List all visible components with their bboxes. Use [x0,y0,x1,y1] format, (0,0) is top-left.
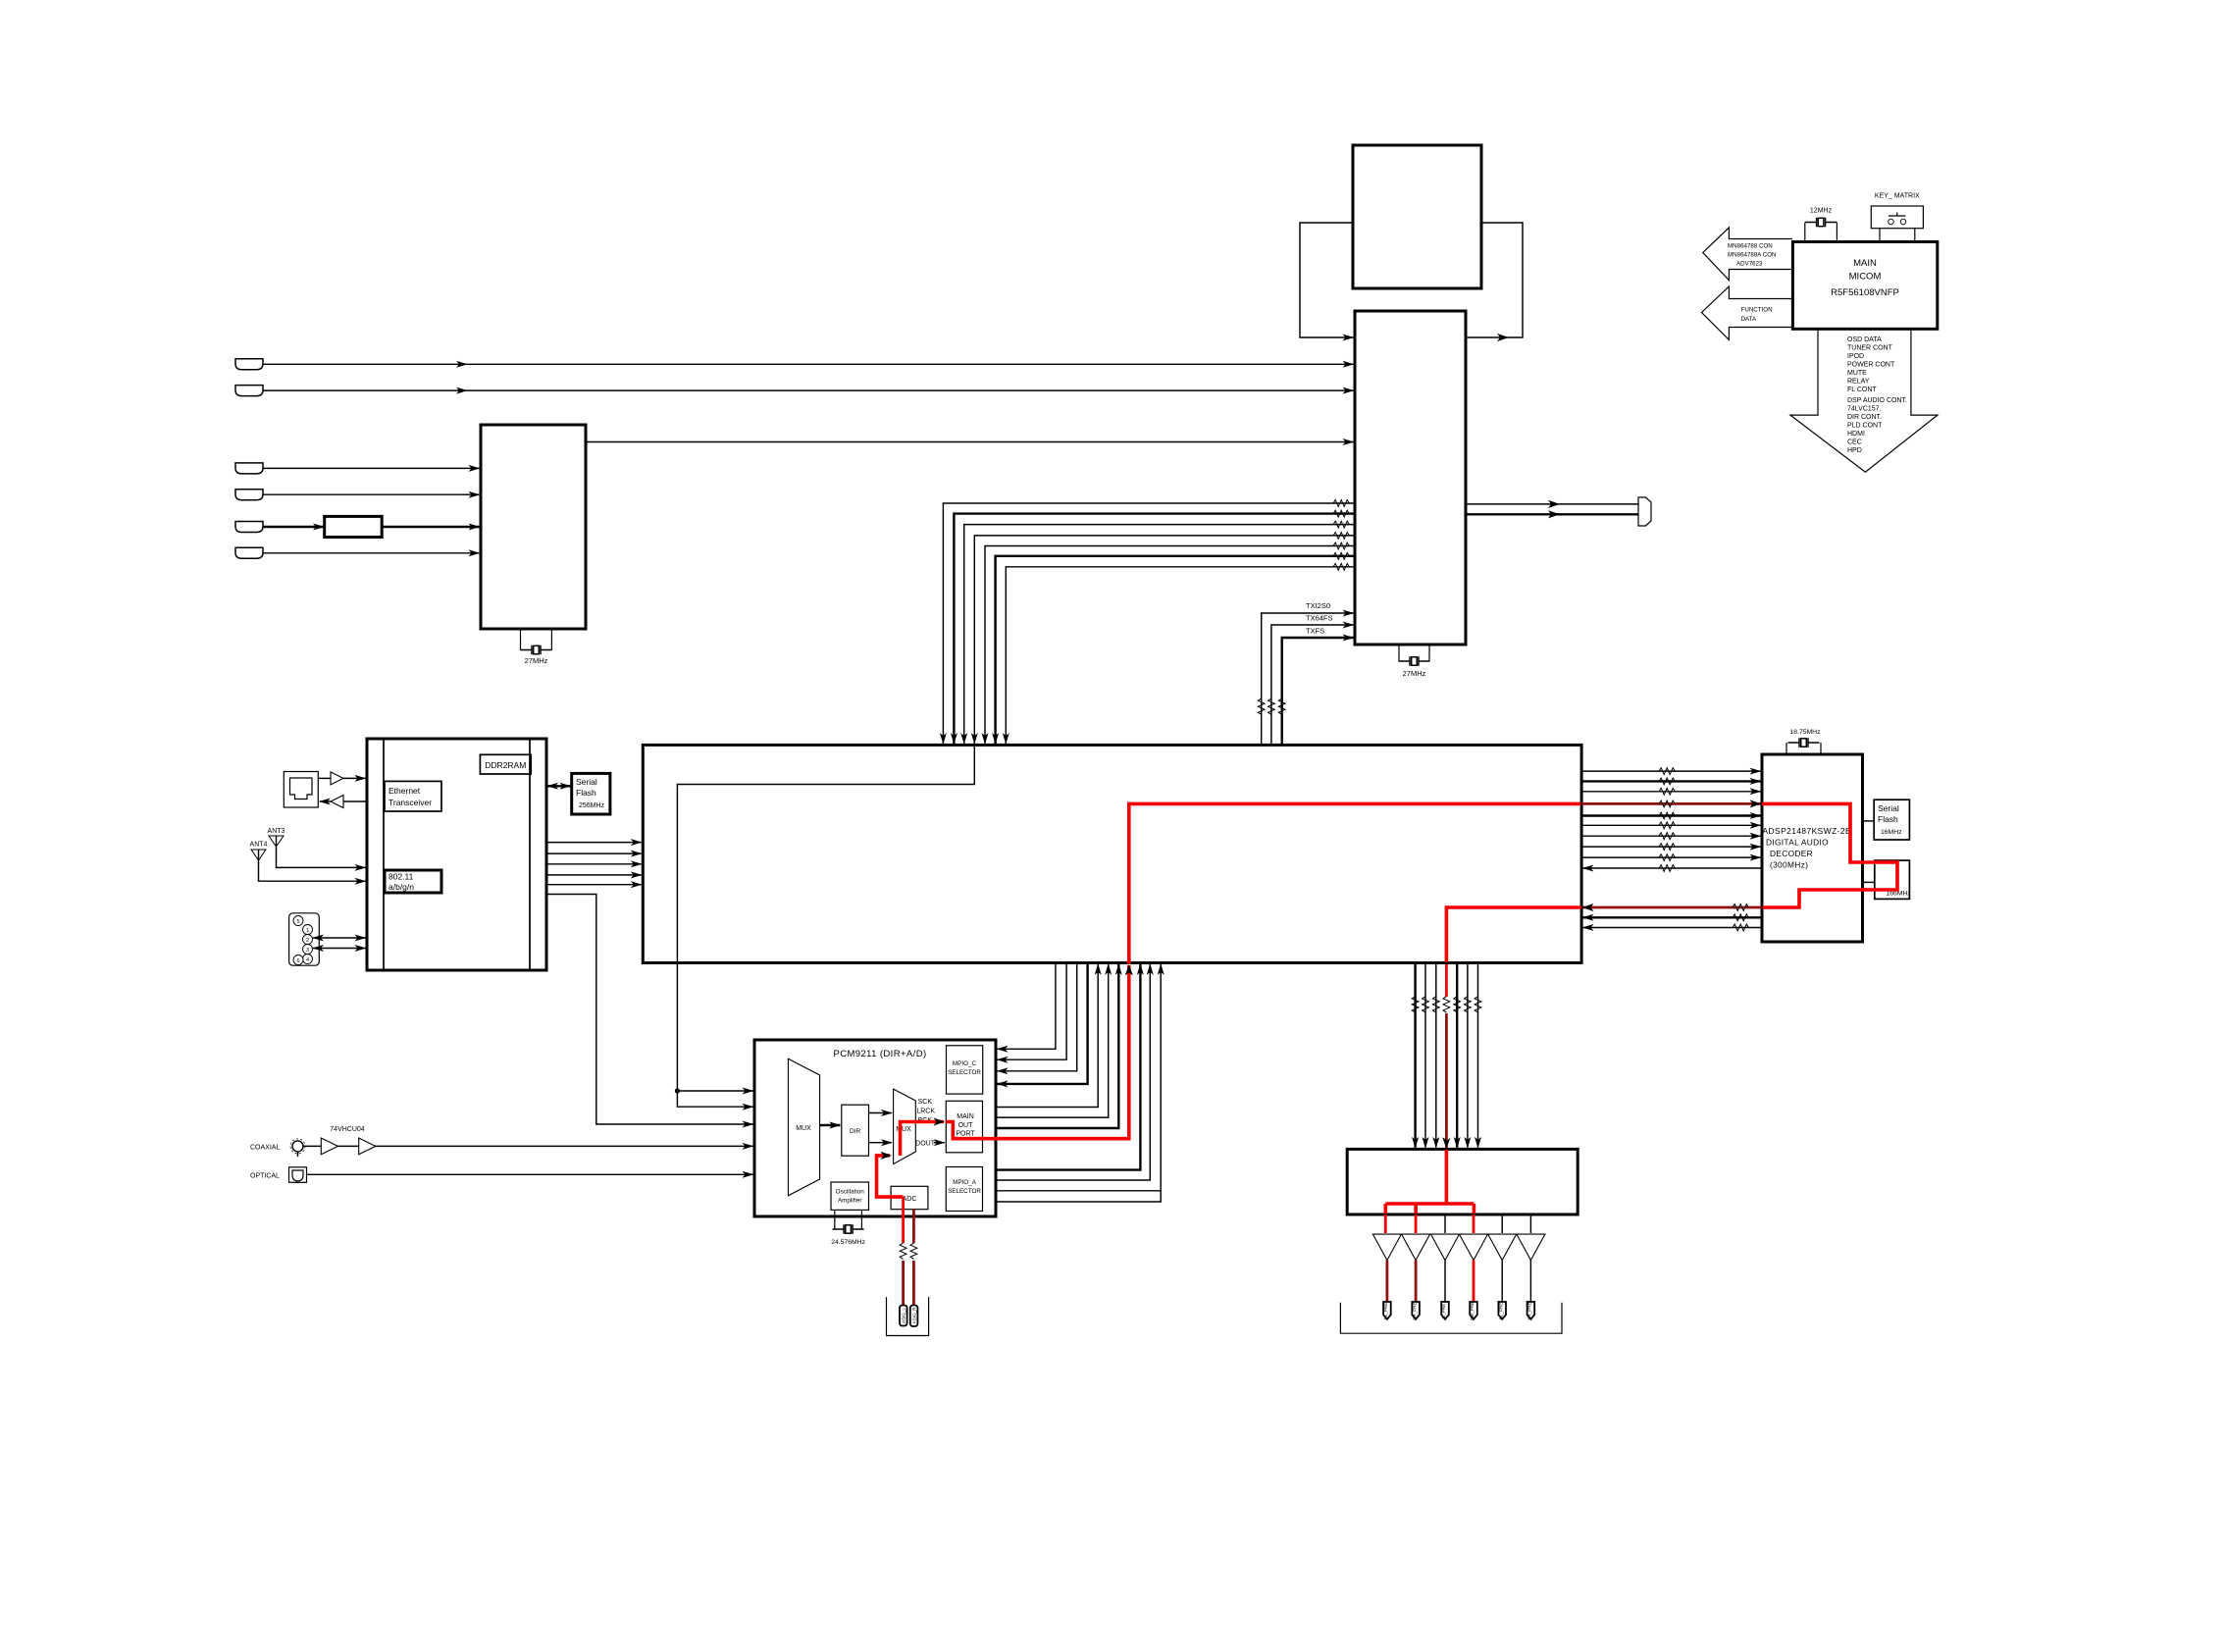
wire U5 to DAC 1 (thick) [1412,964,1419,1148]
svg-text:ADSP21487KSWZ-2B: ADSP21487KSWZ-2B [1763,826,1852,836]
svg-text:FR_PRE: FR_PRE [1412,1302,1417,1319]
connector J12 ADC L [900,1306,907,1326]
svg-text:MICOM: MICOM [1849,272,1882,283]
crystal X1 bracket [521,629,552,650]
wire J4 to U-left block [263,493,480,495]
MAIN MICOM block U10 [1792,242,1937,330]
red wire DAC to T2 [1415,1214,1418,1233]
wire U4 right to connector (thick) [1466,510,1638,518]
big outline arrow A7 (control signals) [1790,329,1938,472]
bracket under ADC connectors [887,1297,929,1335]
802.11 label box [385,870,441,893]
svg-text:SELECTOR: SELECTOR [948,1069,981,1076]
bus U4 to DSP line 5 [985,546,1355,745]
red wire T4 to J17 [1473,1261,1475,1302]
wire DAC to T3 [1444,1214,1446,1233]
crystal X1 27MHz [521,645,552,665]
svg-text:256MHz: 256MHz [579,802,605,809]
D-sub connector J9 [289,913,320,965]
connector J1 (top-left input 1) [235,359,263,370]
connector J19 [1527,1302,1535,1320]
connector J5 [235,522,263,533]
svg-text:TXFS: TXFS [1306,627,1324,636]
svg-text:MUTE: MUTE [1847,370,1867,377]
bus U4 to DSP line 4 [974,536,1355,744]
wire U5 to DAC 7 [1475,964,1481,1148]
wire U6 to U5 bus 3 [546,863,642,865]
wire loop U3 to U4 (left) [1300,223,1354,337]
wire J3 to U-left block [263,467,480,469]
wire MAIN OUT LRCK to U5 [996,964,1109,1117]
svg-text:HDMI: HDMI [1847,431,1865,438]
svg-text:Amplifier: Amplifier [838,1198,862,1205]
wire U5 to MPIO_C 2 [998,962,1067,1059]
wire MPIO_A 1 to U5 (thick) [996,964,1140,1170]
wire J9 pin2 to U6 (bidir) [313,937,366,939]
dark wire ADC output R [910,1210,917,1306]
crystal X5 12MHz [1805,208,1837,228]
MAIN OUT PORT box [946,1101,982,1153]
svg-text:6: 6 [296,958,299,964]
bus U4 to DSP line 6 (thick) [996,556,1355,744]
DDR2RAM label box [480,754,531,774]
buffer amp T6 [1517,1234,1545,1261]
connector J2 (top-left input 2) [235,386,263,396]
wire U6 to U5 bus 1 [546,842,642,844]
wire loop U4 to U3 (right) [1466,223,1523,341]
svg-text:ANT3: ANT3 [268,828,285,835]
main DSP block U5 [643,745,1581,962]
svg-text:PCM9211 (DIR+A/D): PCM9211 (DIR+A/D) [833,1049,926,1059]
svg-text:FL CONT: FL CONT [1847,387,1877,393]
166MHz box [1875,860,1912,899]
buffer A1 [331,772,343,785]
svg-text:MN864788 CON: MN864788 CON [1728,243,1773,250]
wire TXI2S0 [1258,601,1353,745]
bus U5 to ADSP line 1 [1581,768,1761,775]
crystal X2 27MHz [1399,656,1430,678]
red wire inside DAC [1385,1150,1474,1213]
wire optical to PCM9211 [307,1173,753,1175]
wire U6 to U5 bus 5 [546,884,642,886]
crystal X3 bracket [835,1210,862,1229]
filter box FB1 [325,516,383,537]
svg-text:OUT: OUT [958,1122,974,1129]
buffer amp T2 [1402,1234,1430,1261]
wire MPIO_A 3 to U5 [996,964,1161,1191]
svg-text:802.11: 802.11 [388,872,414,882]
svg-text:(300MHz): (300MHz) [1770,860,1808,870]
wire DIR to MUX2 a [869,1112,893,1114]
buffer amp T1 [1372,1234,1401,1261]
RCA jack J10 [290,1139,305,1157]
svg-text:IPOD: IPOD [1847,353,1864,360]
svg-text:MAIN: MAIN [1853,258,1877,269]
wire DIR to MUX2 b [869,1142,893,1144]
Oscillation Amplifier box [831,1182,869,1210]
svg-text:HPD: HPD [1847,447,1862,454]
svg-text:MN864788A CON: MN864788A CON [1728,252,1777,259]
wire ANT3 to U6 [277,847,366,867]
antenna ANT4 [250,842,268,860]
label MAIN MICOM [1831,258,1899,298]
connector J17 [1470,1302,1477,1320]
wire TXFS (thick) [1278,627,1353,746]
svg-text:MUX: MUX [896,1126,911,1133]
svg-text:SR_PRE: SR_PRE [1527,1302,1532,1319]
DAC block U9 [1347,1149,1578,1214]
svg-text:4: 4 [306,957,309,963]
bus U5 to ADSP line 7 [1581,833,1761,840]
network module block U6 [367,739,546,970]
svg-text:Flash: Flash [576,788,596,798]
svg-text:PORT: PORT [956,1130,975,1137]
wire U5 to MPIO_C 3 [998,962,1077,1071]
connector J4 [235,490,263,500]
bracket under DAC connectors [1340,1303,1562,1334]
wire MPIO_A 4 join [996,1191,1161,1202]
bus U5 to ADSP line 5 (thick) [1581,812,1761,819]
svg-text:MUX: MUX [796,1125,811,1132]
TOSLINK jack J11 [289,1167,307,1183]
svg-text:12MHz: 12MHz [1810,208,1833,215]
HDMI switch tall block U4 [1355,311,1466,645]
svg-text:FUNCTION: FUNCTION [1741,307,1773,314]
wire U6 to serial flash (bidir) [547,785,571,787]
MPIO_A SELECTOR box [946,1167,982,1212]
inner partition lines U6 [384,739,530,970]
MPIO_C SELECTOR box [947,1046,983,1094]
red wire inside ADSP and 166MHz loop [1762,803,1897,907]
wire TX64FS [1268,614,1354,746]
connector J14 [1383,1302,1391,1319]
ADC box [891,1186,928,1209]
wire U5 to DAC 6 [1465,964,1472,1148]
buffer amp T5 [1488,1234,1517,1261]
wire T6 to J19 [1529,1261,1531,1302]
wire U6 to U5 bus 2 [546,852,642,854]
svg-text:a/b/g/n: a/b/g/n [388,882,414,892]
bus U4 to DSP line 3 [964,525,1355,744]
wire J5 through filter box [263,526,480,528]
svg-text:Ethernet: Ethernet [388,786,421,796]
svg-text:R5F56108VNFP: R5F56108VNFP [1831,287,1899,298]
internal wire DIT to PCM9211 [675,746,974,1107]
bus U5 to ADSP line 3 [1581,788,1761,795]
wire U5 to MPIO_C 4 [998,962,1088,1084]
svg-text:Transceiver: Transceiver [388,798,432,807]
Serial Flash 256MHz box [572,773,610,814]
labels FUNCTION DATA [1741,307,1773,324]
wire T5 to J18 [1501,1261,1503,1302]
buffer A4 [359,1138,376,1155]
red bus ADSP to U5 lower [1582,903,1762,911]
svg-text:DATA: DATA [1741,316,1757,323]
ADSP block U8 [1762,754,1863,942]
svg-text:LRCK: LRCK [916,1109,935,1115]
connector J7 output [1638,497,1651,526]
bus ADSP to U5 return [1583,865,1763,872]
buffer amp T3 [1431,1234,1460,1261]
bus U5 to ADSP line 8 [1581,844,1761,851]
wire ADSP to 166MHz box [1863,881,1875,883]
wire ANT4 to U6 [259,860,366,881]
svg-text:MPIO_A: MPIO_A [953,1179,977,1186]
bus U5 to ADSP line 6 [1581,822,1761,829]
svg-text:KEY_ MATRIX: KEY_ MATRIX [1875,193,1920,200]
crystal X4 bracket [1786,743,1821,754]
connector J15 [1412,1302,1420,1320]
buffer A2 [331,796,343,808]
wire U5 to DAC 2 [1423,964,1429,1148]
svg-text:16MHz: 16MHz [1881,829,1902,836]
svg-text:CEC: CEC [1847,439,1862,446]
svg-text:27MHz: 27MHz [1403,669,1426,678]
wire U5 to DAC 5 (thick) [1454,964,1461,1148]
connector J13 ADC R [910,1306,918,1327]
svg-text:TUNER CONT: TUNER CONT [1847,345,1893,352]
wire J1 to HDMI switch [263,363,1354,365]
svg-text:FL_PRE: FL_PRE [1383,1303,1388,1319]
bus U4 to DSP line 7 [1006,567,1355,744]
buffer amp T4 [1460,1234,1488,1261]
crystal X5 bracket [1805,223,1837,242]
wires KEY_MATRIX to MICOM [1880,229,1915,242]
wire RJ45 to U6 (in) [318,777,365,779]
svg-text:74VHCU04: 74VHCU04 [330,1126,365,1133]
svg-text:DIR: DIR [850,1128,861,1135]
wire ADSP to serial flash [1863,820,1875,822]
DIR box [842,1105,869,1156]
wire U4 right to connector (thin) [1466,500,1638,508]
red wire T1 to J14 [1386,1261,1389,1302]
outline arrow A6 (function data) [1702,286,1793,339]
svg-text:ASIG_R: ASIG_R [911,1307,916,1324]
svg-text:TXI2S0: TXI2S0 [1306,601,1330,610]
RJ45 jack J8 [284,772,318,808]
video decoder block U2 [481,425,586,629]
red bus U5 to ADSP data [1581,800,1761,807]
red wire MUX2 to MAIN OUT PORT [901,1117,946,1156]
wire U6 to PCM9211 input [546,895,753,1125]
svg-text:COAXIAL: COAXIAL [250,1145,280,1152]
svg-text:2: 2 [306,938,309,944]
labels SCK LRCK BCK [916,1099,935,1124]
svg-text:ANT4: ANT4 [250,842,268,849]
wire MUX1 to DIR [820,1124,841,1126]
svg-text:Flash: Flash [1878,814,1898,824]
svg-text:DDR2RAM: DDR2RAM [485,760,526,770]
control signal list [1847,336,1907,454]
bus U5 to ADSP line 2 (thick) [1581,778,1761,785]
svg-text:27MHz: 27MHz [525,656,548,665]
wire U6 to U5 bus 4 [546,874,642,876]
connector J6 [235,547,263,558]
wire coaxial to PCM9211 [303,1145,753,1147]
wire U6 to RJ45 (out) [320,800,367,802]
crystal X3 24.576MHz [831,1224,865,1246]
connector J18 [1498,1302,1506,1319]
svg-text:74LVC157.: 74LVC157. [1847,406,1882,413]
svg-text:SL_PRE: SL_PRE [1498,1303,1503,1320]
wire U5 to DAC 3 [1432,964,1439,1148]
svg-text:DECODER: DECODER [1770,849,1813,858]
MUX2 trapezoid [894,1089,916,1164]
svg-text:SCK: SCK [918,1099,933,1106]
red wire MAIN OUT DATA to U5 [946,964,1133,1139]
red wire DAC to T1 [1384,1214,1387,1233]
bus U4 to DSP line 1 [943,503,1355,744]
svg-text:Oscillation: Oscillation [836,1189,865,1196]
svg-text:POWER CONT: POWER CONT [1847,362,1895,369]
bus U5 to ADSP line 9 [1581,854,1761,861]
svg-text:DOUT: DOUT [915,1140,936,1147]
Ethernet Transceiver label box [385,781,441,811]
svg-text:RELAY: RELAY [1847,379,1870,386]
outline arrow A5 (HDMI control) [1703,228,1792,281]
buffer A3 [321,1138,337,1155]
svg-text:PLD CONT: PLD CONT [1847,423,1883,430]
wire DOUT arrow [934,1142,945,1144]
KEY_MATRIX box [1871,206,1923,229]
svg-text:18.75MHz: 18.75MHz [1790,729,1822,736]
connector J16 [1441,1302,1449,1319]
red wire T2 to J15 [1415,1261,1418,1302]
svg-text:24.576MHz: 24.576MHz [831,1239,865,1246]
svg-text:MPIO_C: MPIO_C [953,1060,977,1067]
wire DAC to T6 [1529,1214,1531,1233]
svg-text:TX64FS: TX64FS [1306,614,1333,623]
wire J6 to U-left block [263,552,480,554]
svg-text:SELECTOR: SELECTOR [948,1188,981,1195]
connector J3 [235,463,263,474]
svg-text:Serial: Serial [576,777,597,787]
wire MPIO_A 2 to U5 [996,964,1150,1180]
resistors on U4 bus [1333,500,1349,571]
svg-text:ASIG_L: ASIG_L [902,1308,906,1324]
svg-text:Serial: Serial [1878,803,1899,813]
svg-text:5: 5 [296,919,299,925]
red wire DAC to T4 [1473,1214,1475,1233]
svg-text:SW_PRE: SW_PRE [1470,1302,1475,1320]
HDMI repeater square U3 [1353,145,1481,288]
red wire inside U5 (PCM to ADSP) [1129,803,1580,964]
svg-text:3: 3 [306,948,309,954]
wire J2 to HDMI switch [263,389,1354,391]
wire DAC to T5 [1501,1214,1503,1233]
PCM9211 block U7 [754,1040,996,1216]
wire U5 to MPIO_C 1 [998,962,1056,1049]
wire T3 to J16 [1444,1261,1446,1302]
red wire U5 to DAC [1442,964,1450,1149]
svg-text:MAIN: MAIN [957,1113,974,1120]
wire MAIN OUT BCK to U5 [996,964,1118,1128]
crystal X4 18.75MHz [1788,729,1822,748]
wire J9 pin3 to U6 (bidir) [313,948,366,950]
svg-text:ADV7623: ADV7623 [1736,261,1763,268]
svg-text:DSP AUDIO CONT.: DSP AUDIO CONT. [1847,397,1907,404]
red wire inside U5 (ADSP return to DAC) [1446,907,1581,962]
crystal X2 bracket [1399,645,1429,661]
antenna ANT3 [268,828,285,847]
red wire ADC output L [900,1197,906,1306]
Serial Flash 16MHz box [1874,800,1909,840]
wire U2 output to HDMI switch [586,441,1354,443]
svg-text:1: 1 [306,928,309,934]
MUX1 trapezoid [788,1058,819,1196]
red wire ADC to MUX2 [877,1152,904,1197]
svg-text:DIGITAL AUDIO: DIGITAL AUDIO [1766,838,1829,848]
bus ADSP to U5 lower 3 [1583,924,1763,931]
bus ADSP to U5 lower 2 (thick) [1583,914,1763,921]
bus U4 to DSP line 2 (thick) [954,514,1355,744]
svg-text:OSD DATA: OSD DATA [1847,336,1882,343]
svg-text:C_PRE: C_PRE [1441,1304,1446,1318]
wire MAIN OUT SCK to U5 [996,964,1098,1108]
svg-text:OPTICAL: OPTICAL [250,1173,280,1180]
labels MN864788 [1728,243,1777,268]
label ADSP [1763,826,1852,870]
svg-text:DIR CONT.: DIR CONT. [1847,414,1882,421]
